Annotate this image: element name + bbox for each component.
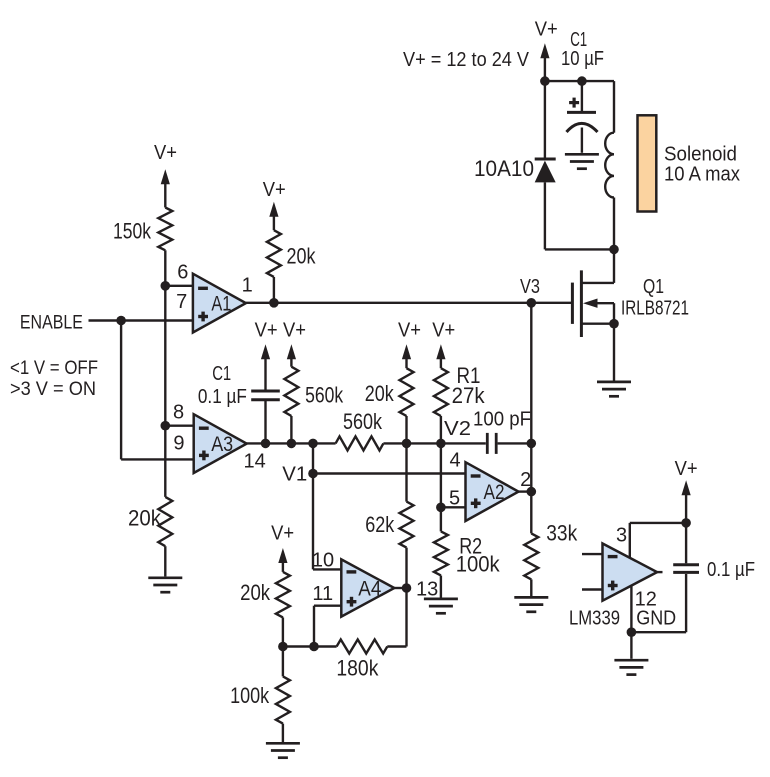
svg-text:A4: A4	[358, 578, 381, 601]
wire diode bottom lead	[544, 182, 546, 249]
wire ENABLE down to A3	[120, 321, 122, 460]
svg-text:V+: V+	[255, 320, 278, 342]
resistor 33k	[524, 533, 538, 579]
op-amp A1	[193, 274, 246, 333]
inductor solenoid coil	[605, 133, 614, 198]
wire 62k to pin13	[405, 548, 407, 588]
junction V1 branch	[308, 439, 318, 449]
diode 10A10	[535, 158, 556, 161]
svg-text:100 pF: 100 pF	[473, 408, 531, 431]
svg-text:A3: A3	[211, 433, 233, 456]
junction C1 filter	[261, 439, 271, 449]
junction LM339 V+	[681, 518, 691, 528]
svg-text:V+: V+	[535, 18, 558, 40]
junction source/body	[609, 319, 619, 329]
wire A4 output stub	[394, 587, 406, 589]
wire to V2 node	[407, 442, 486, 444]
svg-text:V3: V3	[520, 276, 540, 298]
capacitor 0.1uF (bypass)	[673, 565, 699, 573]
power V+ arrow (20k mid)	[402, 344, 411, 368]
svg-text:LM339: LM339	[569, 607, 620, 630]
junction 100pF right	[527, 439, 537, 449]
wire 100pF to output bus	[498, 442, 532, 444]
svg-text:8: 8	[173, 401, 184, 423]
wire V1 vertical	[312, 443, 314, 569]
svg-text:C1: C1	[212, 363, 231, 385]
capacitor C1 10uF plus sign	[569, 101, 579, 104]
wire A4 pin11 stub	[314, 605, 341, 607]
capacitor C1 0.1uF	[251, 391, 280, 400]
wire 20k to ground	[164, 546, 166, 576]
wire V1 to A2 pin4	[313, 472, 466, 474]
capacitor 100pF	[486, 433, 489, 454]
wire source to ground	[613, 324, 615, 382]
svg-text:<1 V = OFF: <1 V = OFF	[10, 357, 98, 379]
power V+ arrow (LM339)	[682, 480, 691, 523]
power V+ arrow (A4 divider)	[278, 548, 287, 572]
svg-text:100k: 100k	[456, 552, 501, 577]
svg-text:GND: GND	[636, 607, 676, 630]
svg-text:180k: 180k	[336, 655, 379, 680]
wire coil bottom	[613, 198, 615, 250]
resistor 180k	[337, 640, 388, 654]
wire top rail	[545, 80, 614, 82]
node V3	[527, 298, 537, 308]
resistor 20k (A4 divider)	[276, 572, 290, 618]
junction pin6 divider	[161, 281, 171, 291]
svg-text:V+: V+	[283, 320, 306, 342]
svg-text:V+: V+	[675, 458, 698, 480]
svg-text:Q1: Q1	[643, 275, 664, 298]
wire to A3 pin 8	[165, 425, 193, 427]
wire 560k to 20k node	[383, 442, 406, 444]
junction pin11/180k	[309, 642, 319, 652]
op-amp LM339 package	[603, 544, 658, 601]
svg-text:IRLB8721: IRLB8721	[621, 297, 689, 320]
capacitor C1 10uF plates	[567, 111, 596, 114]
svg-text:33k: 33k	[546, 520, 578, 545]
ground under Q1	[597, 382, 631, 396]
svg-text:A1: A1	[211, 293, 231, 316]
wire to A1 pin 6	[165, 285, 193, 287]
svg-text:4: 4	[449, 450, 460, 472]
junction A4 output (pin 13)	[402, 583, 412, 593]
resistor 62k	[400, 502, 414, 548]
wire 150k to node	[164, 250, 166, 285]
wire bottom of snubber loop	[545, 248, 614, 250]
power V+ arrow (560k)	[287, 344, 296, 366]
wire C1 bottom lead	[581, 128, 583, 153]
junction 560k vertical	[287, 439, 297, 449]
wire 180k left lead	[283, 645, 337, 647]
svg-text:20k: 20k	[287, 244, 317, 269]
svg-text:10 A max: 10 A max	[664, 163, 741, 186]
wire 20k divider down	[282, 617, 284, 646]
wire pin12 down	[630, 586, 632, 632]
op-amp A4	[341, 559, 394, 616]
svg-text:100k: 100k	[230, 683, 270, 708]
svg-text:V+: V+	[263, 179, 286, 201]
svg-text:150k: 150k	[113, 219, 152, 244]
svg-text:20k: 20k	[365, 381, 395, 406]
wire 20k mid to node	[405, 416, 407, 443]
wire drain lead	[581, 282, 614, 284]
resistor 150k	[158, 208, 172, 251]
wire R2 to ground	[440, 576, 442, 598]
input stub upper	[582, 553, 603, 555]
svg-text:7: 7	[176, 291, 187, 313]
svg-text:20k: 20k	[128, 506, 162, 531]
junction ENABLE	[116, 316, 126, 326]
wire A2 output	[519, 490, 532, 492]
svg-text:560k: 560k	[343, 409, 383, 434]
junction 20k/100k divider	[278, 642, 288, 652]
svg-text:10A10: 10A10	[474, 156, 534, 181]
wire pin3 vertical	[629, 523, 631, 558]
svg-text:V+: V+	[398, 320, 421, 342]
wire GND to ground	[630, 632, 632, 659]
wire 20k to output	[273, 277, 275, 303]
svg-text:V+: V+	[432, 320, 455, 342]
junction A1 output	[269, 298, 279, 308]
svg-text:27k: 27k	[452, 383, 486, 408]
ground under 20k divider	[148, 578, 182, 592]
transistor Q1 gate bar	[571, 283, 574, 324]
wire GND to cap	[631, 631, 686, 633]
wire divider to 20k	[164, 426, 166, 497]
ground under C1	[565, 154, 599, 168]
ground under LM339	[614, 660, 648, 674]
svg-text:0.1 µF: 0.1 µF	[707, 558, 755, 581]
wire source lead	[581, 323, 614, 325]
svg-text:0.1 µF: 0.1 µF	[198, 385, 247, 408]
wire C1 top lead	[581, 81, 583, 111]
svg-text:3: 3	[616, 524, 627, 546]
resistor 20k (mid)	[400, 368, 414, 416]
resistor 20k (A3 divider)	[158, 497, 172, 546]
svg-text:560k: 560k	[305, 382, 344, 407]
wire V3 bus down	[530, 303, 532, 444]
svg-text:V+: V+	[154, 142, 177, 164]
svg-text:V+: V+	[271, 522, 294, 544]
wire V2 to pin5	[440, 443, 442, 507]
svg-text:V2: V2	[444, 418, 471, 440]
power V+ arrow (20k pullup)	[269, 202, 278, 231]
junction C1 top	[577, 76, 587, 86]
wire 0.1uF to node	[264, 400, 266, 444]
power V+ arrow (0.1uF)	[261, 344, 270, 389]
svg-text:62k: 62k	[365, 512, 395, 537]
wire 180k right lead	[387, 645, 406, 647]
ground under 33k	[514, 597, 548, 611]
wire 100k to ground	[282, 724, 284, 743]
wire to A3 pin 9	[121, 458, 194, 460]
wire pin11 down	[313, 606, 315, 647]
transistor Q1 body arrow	[583, 299, 598, 308]
wire pin13 down to 180k	[405, 588, 407, 647]
node V2	[436, 439, 446, 449]
wire bus to A2 output	[530, 443, 532, 491]
wire 100k top	[282, 647, 284, 677]
junction A2 pin5	[436, 503, 446, 513]
wire divider down to A3 pin8	[164, 286, 166, 426]
power V+ arrow (top)	[540, 43, 549, 81]
svg-text:13: 13	[416, 578, 438, 600]
input stub lower	[582, 588, 603, 590]
resistor 560k pullup	[284, 367, 298, 416]
wire 33k to ground	[530, 579, 532, 596]
svg-text:1: 1	[242, 275, 253, 297]
solenoid body	[638, 115, 657, 211]
svg-text:V+ = 12 to 24 V: V+ = 12 to 24 V	[403, 49, 530, 71]
junction V+ / diode	[540, 76, 550, 86]
wire LM339 output stub	[657, 571, 662, 573]
wire drain down	[613, 249, 615, 283]
wire 62k bottom lead	[405, 443, 407, 501]
resistor 20k pullup	[267, 230, 281, 277]
svg-text:9: 9	[173, 433, 184, 455]
wire pin5 stub	[441, 506, 466, 508]
svg-text:6: 6	[177, 261, 188, 283]
wire diode top lead	[544, 81, 546, 159]
ground under 100k	[266, 743, 300, 757]
wire body lead down	[613, 303, 615, 324]
wire R1 to V2	[440, 416, 442, 443]
junction drain / solenoid	[609, 245, 619, 255]
node V1	[308, 469, 318, 479]
wire V1 to A4 pin10	[313, 568, 341, 570]
svg-text:A2: A2	[484, 481, 505, 504]
resistor 560k feedback	[336, 436, 384, 450]
ground under R2	[424, 599, 458, 613]
svg-text:11: 11	[312, 583, 333, 605]
svg-text:20k: 20k	[240, 580, 271, 605]
resistor 100k (divider)	[276, 676, 290, 723]
svg-text:14: 14	[243, 451, 265, 473]
op-amp A2	[466, 462, 519, 521]
power V+ arrow (R1)	[436, 344, 445, 368]
wire A3 output row	[247, 442, 336, 444]
wire 33k top	[530, 492, 532, 534]
junction A2 output	[527, 487, 537, 497]
transistor Q1 channel bar	[580, 270, 583, 337]
wire cap bottom lead	[685, 574, 687, 632]
wire pin3 horizontal	[630, 522, 686, 524]
junction A3 pin8	[161, 421, 171, 431]
svg-text:10: 10	[312, 550, 334, 572]
resistor R2 100k	[434, 531, 448, 575]
wire cap top lead	[685, 523, 687, 563]
resistor R1 27k	[434, 368, 448, 416]
wire A1 output to gate	[246, 302, 573, 304]
wire R2 top	[440, 507, 442, 531]
svg-text:10 µF: 10 µF	[561, 48, 604, 70]
junction GND net	[627, 627, 637, 637]
op-amp A3	[194, 414, 247, 473]
svg-text:V1: V1	[282, 464, 307, 486]
wire ENABLE input	[89, 319, 193, 321]
svg-text:>3 V = ON: >3 V = ON	[10, 378, 96, 400]
wire solenoid branch down	[613, 81, 615, 133]
power V+ arrow (150k)	[161, 169, 170, 207]
junction 20k bottom	[402, 439, 412, 449]
wire 560k to node	[290, 416, 292, 443]
svg-text:ENABLE: ENABLE	[20, 311, 83, 333]
